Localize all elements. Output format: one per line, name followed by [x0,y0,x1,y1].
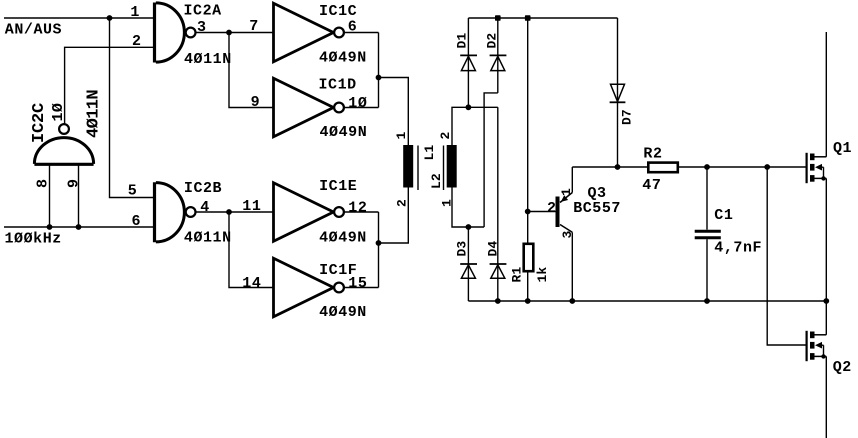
wire D7 column [617,18,619,167]
inverter IC1D body [274,78,344,137]
svg-text:IC2C: IC2C [30,103,49,143]
junction C1 at bottom rail [704,298,710,304]
svg-text:4Ø49N: 4Ø49N [319,49,367,66]
wire C1 bottom column [706,239,708,301]
capacitor C1 [695,231,721,238]
wire IC1F output [344,287,378,289]
svg-text:4Ø49N: 4Ø49N [320,124,368,141]
svg-text:47: 47 [642,177,661,194]
svg-text:D2: D2 [485,33,500,49]
nand gate IC2B body [155,182,196,242]
inverter IC1C body [274,3,344,62]
wire IC1D output [344,107,378,109]
junction R1 at top rail [525,15,531,21]
wire L2 pin2 to D1/D4 node [452,107,498,145]
svg-text:IC1C: IC1C [319,3,357,20]
inverter IC1E body [274,183,344,242]
svg-text:2: 2 [395,199,410,207]
svg-text:1: 1 [394,132,409,140]
svg-text:Q1: Q1 [833,140,852,157]
wire D3 column [467,227,469,301]
junction Q1 source / Q2 drain at rail [823,298,829,304]
wire branch to L1 pin 1 [379,78,409,146]
wire IC1E output [344,211,378,213]
wire Q1 source to rail [825,178,827,301]
junction IC1C/IC1D pair [376,75,382,81]
diode D4 [490,264,507,278]
svg-text:4Ø11N: 4Ø11N [85,90,104,138]
svg-text:1: 1 [130,4,140,21]
svg-text:L1: L1 [422,145,437,161]
svg-text:5: 5 [128,182,138,199]
wire bottom rail [468,300,826,302]
wire Q3 collector stub [571,232,573,301]
svg-text:IC2B: IC2B [184,180,222,197]
junction R1 column at Q3 base [525,209,531,215]
svg-text:IC1E: IC1E [319,178,357,195]
junction IC2C pin9 on rail [76,224,82,230]
wire R2 to Q1 gate [677,166,806,168]
wire 100kHz rail [4,226,154,228]
junction IC2B output branch [226,209,232,215]
diode D2 [490,55,507,70]
wire D2 column [497,18,499,93]
svg-text:4: 4 [200,199,210,216]
wire IC2A output [196,32,274,34]
wire C1 top column [706,167,708,230]
svg-text:4Ø11N: 4Ø11N [184,229,232,246]
svg-text:1ØØkHz: 1ØØkHz [5,231,62,248]
junction IC1E/IC1F pair [376,240,382,246]
nand gate IC2C body [34,124,93,164]
transistor Q3 body [556,193,573,233]
svg-text:8: 8 [35,179,52,188]
inductor L2 coil [447,145,457,188]
wire IC2A pin2 from IC2C output [65,47,154,124]
wire IC2C pin 8 [49,164,51,227]
svg-text:4Ø49N: 4Ø49N [319,304,367,321]
transformer core line left [417,146,419,191]
transformer core line right [443,146,445,191]
junction D7 at emitter node [615,164,621,170]
svg-text:1k: 1k [535,267,550,283]
nand gate IC2A body [155,3,196,63]
mosfet Q2 body [807,331,827,361]
svg-text:D4: D4 [486,241,501,257]
wire D2 jog column [484,93,498,227]
svg-text:3: 3 [197,19,207,36]
wire joining IC1E and IC1F outputs [378,212,380,288]
wire branch to IC1D input [229,33,274,108]
junction C1 top [704,164,710,170]
svg-text:1Ø: 1Ø [348,95,367,112]
svg-text:D7: D7 [620,109,635,125]
wire IC2B output [196,211,274,213]
svg-text:2: 2 [438,132,453,140]
svg-text:4Ø49N: 4Ø49N [319,229,367,246]
diode D3 [460,264,477,278]
junction IC2A output branch [226,30,232,36]
svg-text:R1: R1 [510,267,525,283]
svg-text:1Ø: 1Ø [50,103,67,122]
wire Q2 source to bottom edge [825,356,827,438]
junction IC2C pin8 on rail [47,224,53,230]
wire D4 column [497,107,499,301]
wire joining IC1C and IC1D outputs [378,33,380,108]
svg-text:D1: D1 [455,33,470,49]
resistor R1 [524,244,534,271]
svg-text:Q2: Q2 [833,359,852,376]
wire top supply rail [468,17,617,19]
svg-text:11: 11 [242,198,261,215]
wire Q3 base [528,211,556,213]
junction AN/AUS rail to pin5 drop [107,15,113,21]
wire L2 pin1 to D3/D2 node [452,188,484,228]
svg-text:2: 2 [132,33,142,50]
svg-text:7: 7 [249,18,259,35]
junction L2 top at D1 [466,104,472,110]
wire Q1 drain to top edge [825,32,827,157]
junction Q3 collector at rail [569,298,575,304]
wire D1 column [467,18,469,107]
junction D2 at top rail [495,15,501,21]
inverter IC1F body [274,258,344,317]
diode D1 [460,55,477,70]
wire R1 column [527,18,529,243]
svg-text:IC1D: IC1D [319,77,357,94]
svg-text:C1: C1 [714,207,733,224]
svg-text:D3: D3 [455,241,470,257]
svg-text:14: 14 [242,275,261,292]
wire vertical to IC2B pin5 [110,18,155,198]
svg-text:L2: L2 [429,173,444,189]
svg-text:R2: R2 [643,145,662,162]
wire IC1C output [344,32,378,34]
junction R1 at bottom rail [525,298,531,304]
wire Q3 emitter stub [571,167,573,193]
junction L2 bottom at D3 [466,224,472,230]
wire Q2 gate branch column [767,167,805,345]
svg-text:15: 15 [348,275,367,292]
wire IC2C pin 9 [78,164,80,227]
svg-text:2: 2 [547,200,557,217]
mosfet Q1 body [807,153,827,183]
wire branch to L1 pin 2 [379,188,409,244]
svg-text:BC557: BC557 [573,200,621,217]
junction D4 at bottom rail [495,298,501,304]
diode D7 [610,84,626,102]
inductor L1 coil [403,145,413,188]
svg-text:9: 9 [251,94,261,111]
svg-text:4Ø11N: 4Ø11N [184,51,232,68]
wire Q2 drain to rail [825,301,827,335]
svg-text:6: 6 [132,213,142,230]
wire AN/AUS rail [4,17,154,19]
wire emitter node to R2 [572,166,648,168]
svg-text:IC2A: IC2A [184,3,222,20]
svg-text:AN/AUS: AN/AUS [5,22,62,39]
svg-text:9: 9 [66,179,83,188]
svg-text:4,7nF: 4,7nF [714,240,762,257]
wire branch to IC1F input [229,212,274,288]
svg-text:12: 12 [348,200,367,217]
resistor R2 [648,163,678,173]
wire R1 bottom to rail [527,273,529,302]
junction Q2 gate branch [764,164,770,170]
